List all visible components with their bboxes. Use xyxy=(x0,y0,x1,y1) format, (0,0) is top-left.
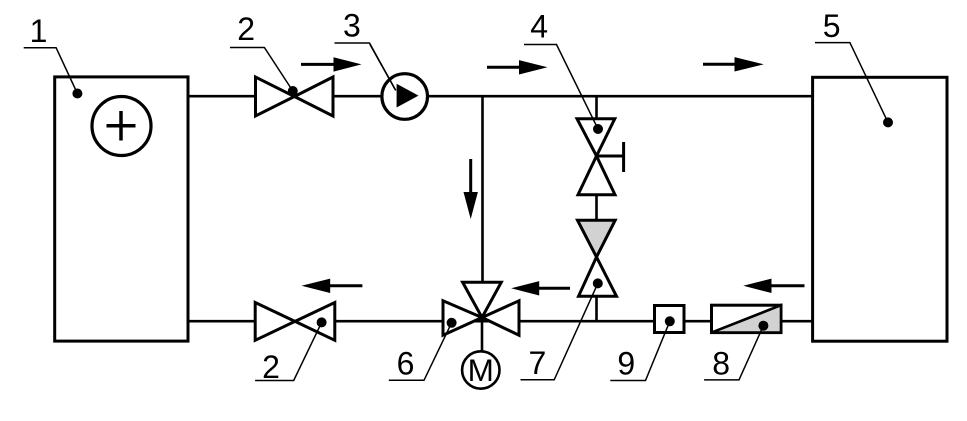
svg-text:M: M xyxy=(468,352,494,388)
svg-text:8: 8 xyxy=(712,346,730,382)
svg-text:3: 3 xyxy=(343,8,361,44)
svg-text:2: 2 xyxy=(262,349,280,385)
svg-text:4: 4 xyxy=(530,9,548,45)
svg-text:7: 7 xyxy=(529,345,547,381)
svg-text:2: 2 xyxy=(237,11,255,47)
svg-text:9: 9 xyxy=(617,345,635,381)
svg-text:6: 6 xyxy=(397,346,415,382)
svg-text:5: 5 xyxy=(823,8,841,44)
svg-text:1: 1 xyxy=(30,13,48,49)
